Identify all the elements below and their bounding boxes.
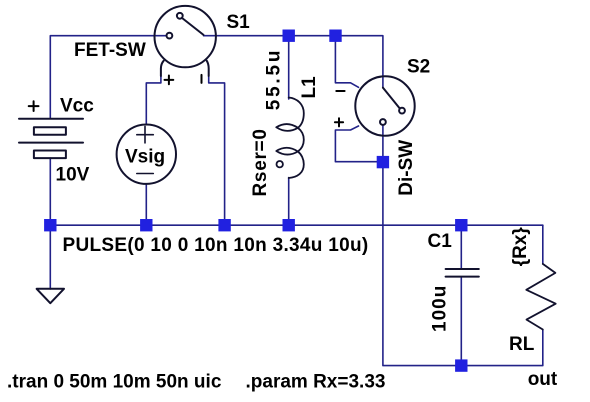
svg-text:out: out xyxy=(528,369,558,390)
wire mid rail xyxy=(50,224,543,226)
wire Vsig bottom xyxy=(145,184,147,225)
battery plus sign xyxy=(29,101,39,111)
S1 minus label (rotated bar) xyxy=(201,75,203,83)
svg-text:55.5u: 55.5u xyxy=(263,48,284,111)
svg-text:PULSE(0 10 0 10n 10n 3.34u 10u: PULSE(0 10 0 10n 10n 3.34u 10u) xyxy=(63,235,369,256)
wire battery top to S1 left xyxy=(50,36,166,119)
svg-text:RL: RL xyxy=(509,334,535,355)
junction L1 top / switch node xyxy=(283,30,295,42)
wire S2 minus control xyxy=(335,36,358,88)
wire C1 top xyxy=(460,225,462,268)
S1 plus label xyxy=(165,76,174,85)
svg-text:L1: L1 xyxy=(299,76,320,99)
wire RL top xyxy=(542,225,544,264)
wire ground stub xyxy=(49,225,51,289)
wire S1 plus control to Vsig xyxy=(146,76,161,125)
S2 plus label xyxy=(335,118,343,126)
voltage source Vsig circle xyxy=(117,125,176,184)
wire S1 minus control to rail xyxy=(209,76,225,225)
svg-text:S2: S2 xyxy=(407,57,430,78)
Vsig plus and minus marks xyxy=(137,126,154,173)
inductor L1 coil xyxy=(276,98,304,179)
svg-text:100u: 100u xyxy=(430,285,451,332)
junction Vsig minus on ground rail xyxy=(140,219,152,231)
junction S1 minus control on ground rail xyxy=(218,219,230,231)
junction S2 bottom / plus control xyxy=(377,156,389,168)
svg-text:Vcc: Vcc xyxy=(60,96,94,117)
svg-text:S1: S1 xyxy=(227,12,251,33)
svg-text:FET-SW: FET-SW xyxy=(74,40,146,61)
junction battery minus on ground rail xyxy=(44,219,56,231)
switch S2 body xyxy=(355,76,414,135)
wire C1 bottom xyxy=(460,278,462,366)
junction L1 bottom on ground rail xyxy=(283,219,295,231)
wire S2 plus control xyxy=(335,126,383,162)
svg-text:{Rx}: {Rx} xyxy=(510,227,531,267)
svg-text:.param Rx=3.33: .param Rx=3.33 xyxy=(246,372,386,393)
capacitor C1 plates xyxy=(446,269,479,277)
svg-text:Di-SW: Di-SW xyxy=(396,140,417,196)
wire S2 bottom to out rail xyxy=(383,125,543,365)
ground xyxy=(37,289,64,303)
svg-text:Rser=0: Rser=0 xyxy=(250,128,271,196)
junction C1 top on ground rail xyxy=(455,219,467,231)
wire L1 top xyxy=(288,36,290,99)
resistor RL zigzag xyxy=(526,264,555,330)
svg-text:10V: 10V xyxy=(56,165,90,186)
junction S2 minus control on switch node xyxy=(329,30,341,42)
junction C1 bottom on out net xyxy=(455,359,467,371)
wire S1 right to S2 top xyxy=(204,36,383,88)
switch S1 body (FET-SW) xyxy=(155,6,216,76)
svg-text:.tran 0 50m 10m 50n uic: .tran 0 50m 10m 50n uic xyxy=(7,372,222,393)
svg-text:C1: C1 xyxy=(428,231,453,252)
wire battery bottom xyxy=(49,158,51,225)
battery Vcc plates xyxy=(19,119,83,158)
S2 minus label xyxy=(336,90,344,92)
svg-text:Vsig: Vsig xyxy=(125,147,165,168)
wire L1 bottom xyxy=(288,178,290,226)
